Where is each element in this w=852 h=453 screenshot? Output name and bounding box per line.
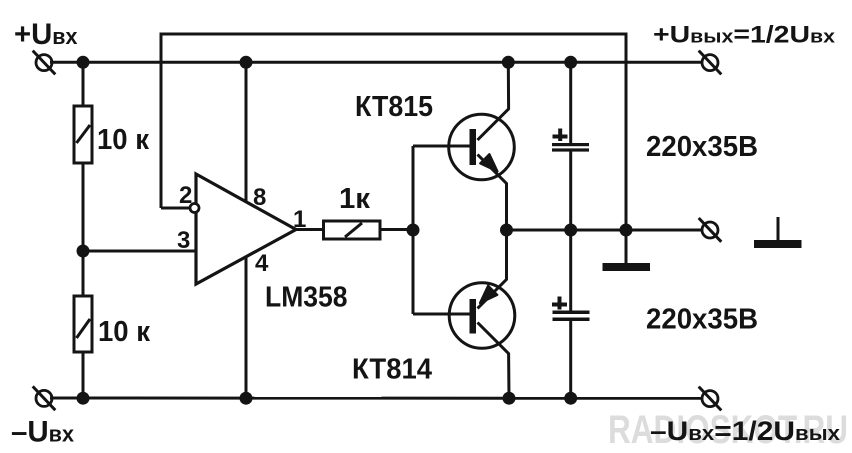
wire divider middle segment xyxy=(82,161,85,298)
resistor R1 10k xyxy=(74,106,92,163)
junction emitters node xyxy=(500,224,513,237)
wire base VT1 xyxy=(413,145,470,148)
wire pin 8 supply xyxy=(245,62,248,203)
op-amp U1 LM358 xyxy=(190,174,296,284)
wire top capacitor lower lead xyxy=(569,151,572,231)
junction base node xyxy=(407,224,420,237)
svg-text:220х35В: 220х35В xyxy=(646,304,758,336)
wire pin 4 supply xyxy=(245,256,248,398)
terminal common xyxy=(699,218,722,242)
capacitor C2 220x35V xyxy=(552,297,590,322)
junction top rail pin8 xyxy=(240,56,253,69)
wire divider top segment xyxy=(82,62,85,108)
svg-text:2: 2 xyxy=(179,182,192,209)
junction mid rail capacitor xyxy=(564,224,577,237)
capacitor C1 220x35V xyxy=(552,129,589,152)
terminal -Uvyh xyxy=(699,387,722,411)
wire feedback right vertical xyxy=(625,33,628,231)
junction bottom rail pin4 xyxy=(240,392,253,405)
wire top feedback horizontal xyxy=(160,33,628,36)
wire ground stub xyxy=(625,230,628,264)
ground symbol at mid rail xyxy=(603,263,651,271)
svg-text:КТ815: КТ815 xyxy=(355,91,433,123)
junction bottom rail collector VT2 xyxy=(503,392,516,405)
wire mid rail xyxy=(507,229,704,232)
wire feedback left vertical xyxy=(160,33,163,209)
junction top rail capacitor C1 xyxy=(564,56,577,69)
svg-text:220х35В: 220х35В xyxy=(646,131,758,163)
resistor R2 10k xyxy=(74,296,92,352)
svg-text:10 к: 10 к xyxy=(98,316,150,348)
svg-text:+Uвх: +Uвх xyxy=(14,18,78,51)
wire divider bottom segment xyxy=(82,350,85,398)
wire top rail xyxy=(50,61,703,64)
wire top capacitor upper lead xyxy=(569,62,572,144)
wire bottom rail xyxy=(50,397,703,400)
wire op-amp output xyxy=(295,228,324,231)
svg-text:+Uвых=1/2Uвх: +Uвых=1/2Uвх xyxy=(653,22,835,49)
junction top rail collector VT1 xyxy=(502,56,515,69)
wire bottom capacitor upper lead xyxy=(569,230,572,312)
svg-text:4: 4 xyxy=(255,250,269,277)
svg-text:1: 1 xyxy=(293,206,306,233)
junction top rail divider xyxy=(77,56,90,69)
resistor R3 1k xyxy=(324,221,381,239)
svg-text:КТ814: КТ814 xyxy=(352,354,432,386)
svg-text:3: 3 xyxy=(177,227,190,254)
transistor Q1 KT815 xyxy=(413,62,514,230)
junction bottom rail capacitor C2 xyxy=(564,392,577,405)
svg-text:10 к: 10 к xyxy=(97,124,149,156)
terminal -Uvx xyxy=(33,386,56,410)
terminal +Uvyh xyxy=(699,51,722,75)
junction bottom rail divider xyxy=(77,392,90,405)
wire bottom capacitor lower lead xyxy=(569,320,572,399)
wire resistor R3 to node xyxy=(379,228,414,231)
svg-text:8: 8 xyxy=(253,184,266,211)
wire base bus vertical xyxy=(412,146,415,314)
svg-text:–Uвх: –Uвх xyxy=(11,416,75,449)
svg-text:1к: 1к xyxy=(339,183,370,215)
svg-text:LM358: LM358 xyxy=(265,282,348,314)
junction mid rail ground xyxy=(620,224,633,237)
transistor Q2 KT814 xyxy=(413,230,515,398)
wire base VT2 xyxy=(413,313,470,316)
wire pin 3 input xyxy=(83,250,196,253)
wire feedback to pin 2 xyxy=(161,207,190,210)
common terminal symbol xyxy=(754,217,802,248)
junction divider midpoint xyxy=(77,245,90,258)
terminal +Uvx xyxy=(33,51,56,75)
